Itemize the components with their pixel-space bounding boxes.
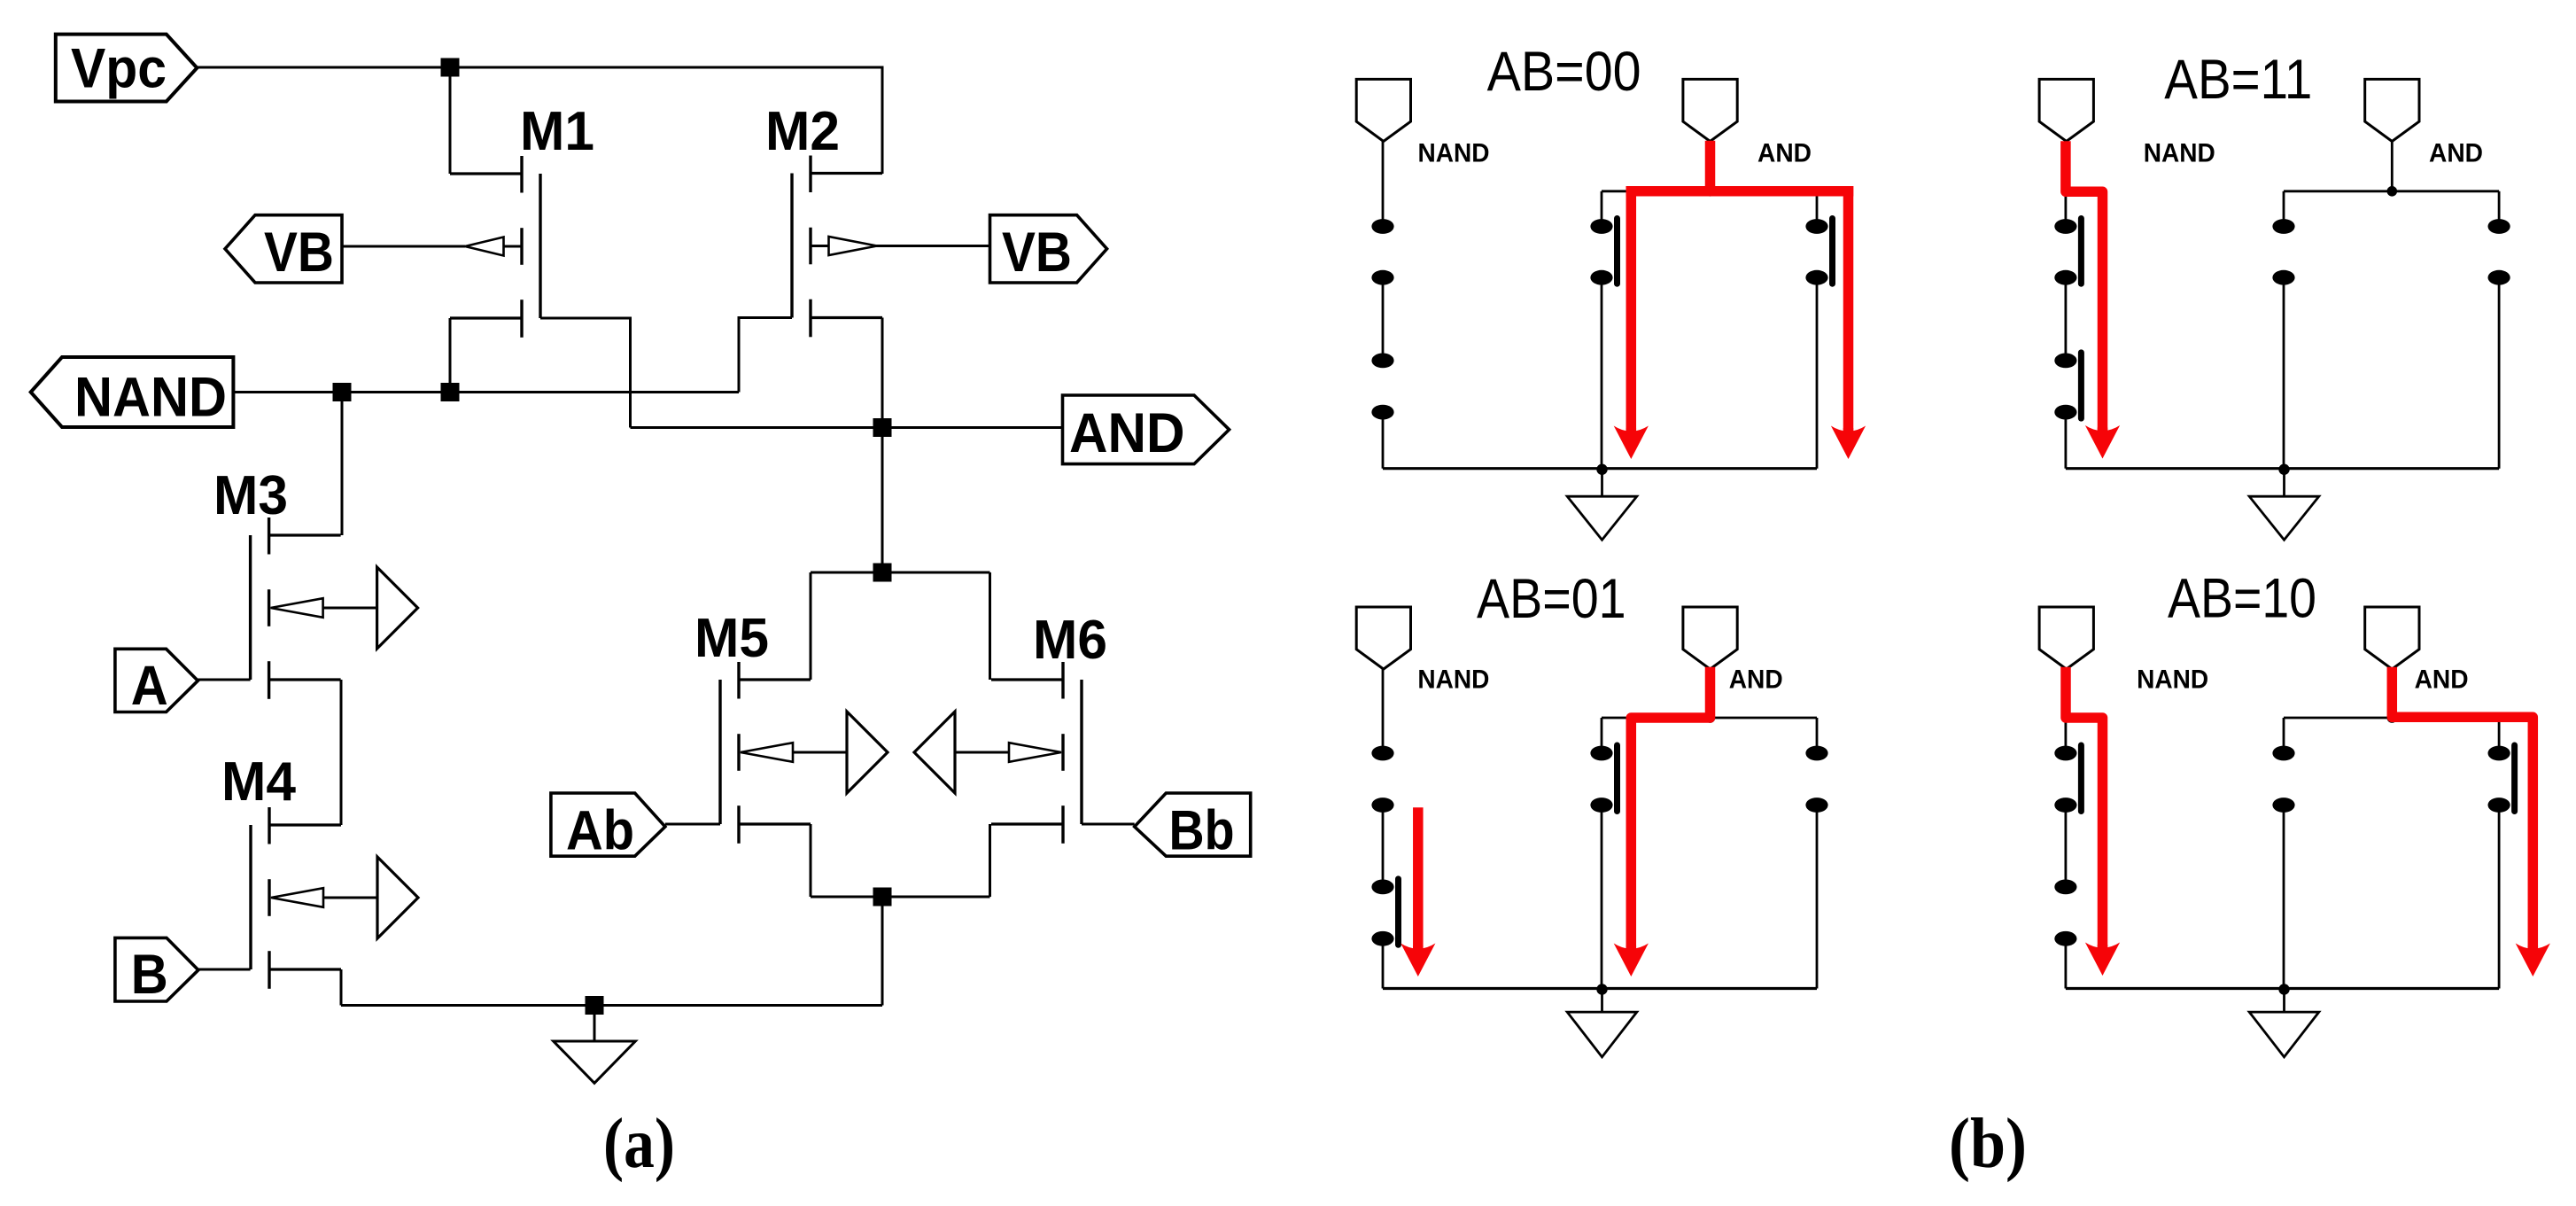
port flag VB right [990,215,1107,283]
svg-text:M1: M1 [520,101,594,162]
red current path AB=00 top [1631,186,1848,197]
red current path AB=10 AND path [2392,673,2533,951]
ground AB=11 [2278,464,2289,475]
svg-text:M4: M4 [221,751,296,813]
port flag AND [1063,395,1230,464]
wire Vpc rail to M2 drain [197,67,882,174]
wire AB=10 ground rail [2066,987,2499,990]
red arrow AB=01 NAND [1401,944,1435,977]
wire AB=11 AND left column [2283,191,2285,220]
junction AND rail [873,418,892,437]
switch contacts AB=10 NAND A [2054,746,2076,761]
transistor M3 [251,517,418,699]
wire AB=01 AND left column [1601,718,1603,746]
svg-text:NAND: NAND [1417,665,1489,695]
red arrow AB=10 AND [2516,944,2550,977]
ground symbol panel a [594,1006,596,1042]
switch contacts AB=10 AND Bb [2488,746,2510,761]
wire AB=00 AND left column [1601,191,1603,220]
port flag NAND [31,357,234,427]
wire M5 M6 source rail [811,896,990,899]
port flag Bb [1135,793,1251,856]
wire M2 gate to NAND rail [739,318,792,393]
wire AB=11 AND stem [2391,142,2394,191]
junction Vpc rail [441,58,460,77]
wire VB right to M2 bulk [876,245,990,247]
red arrow AB=10 NAND [2085,943,2120,976]
svg-text:NAND: NAND [74,367,227,429]
ground AB=10 [2278,984,2289,994]
wire AB=01 AND right column [1816,718,1819,746]
wire AB=00 NAND column [1382,142,1385,220]
svg-text:AND: AND [2415,665,2469,695]
wire M2 source to AND rail [881,318,884,428]
switch contacts AB=10 AND Ab [2272,746,2294,761]
svg-text:M3: M3 [213,465,288,526]
wire B input to M4 gate [198,969,251,971]
wire AB=11 AND top bar [2284,190,2499,192]
svg-text:B: B [131,944,168,1006]
wire AB=10 NAND column [2064,669,2067,747]
port flag Vpc [56,35,198,102]
wire AB=10 AND right column [2498,718,2501,746]
switch contacts AB=01 AND Bb [1805,746,1827,761]
port flag A [115,649,198,712]
red current path AB=01 AND path [1631,673,1710,951]
wire AB=00 ground rail [1383,467,1817,470]
svg-text:AB=01: AB=01 [1477,568,1626,630]
supply connector AB=10 AND supply [2365,607,2419,669]
red current path AB=00 stem [1705,146,1716,191]
svg-text:AND: AND [2429,139,2483,168]
wire branch to M6 drain [989,572,991,680]
switch contacts AB=00 NAND A [1371,219,1393,234]
wire AB=01 AND stem [1709,669,1711,719]
svg-text:NAND: NAND [2144,139,2215,168]
wire M6 source down [989,824,991,897]
wire M3 source to M4 drain [340,680,343,825]
supply connector AB=00 NAND supply [1356,79,1410,141]
svg-text:Vpc: Vpc [71,37,167,99]
transistor M6 [914,662,1082,844]
switch contacts AB=01 NAND A [1371,746,1393,761]
switch contacts AB=00 AND Ab [1590,219,1612,234]
wire M5 source down [810,824,812,897]
wire NAND node to M3 drain [341,393,344,536]
junction ground rail [586,996,604,1015]
red arrow AB=11 [2085,425,2120,459]
transistor M5 [720,662,888,844]
wire Vpc junction stub to M1 drain [449,67,452,174]
wire Bb input to M6 gate [1082,823,1135,826]
wire M1 source to NAND rail [449,318,452,393]
switch contacts AB=01 AND Ab [1590,746,1612,761]
ground AB=00 [1596,464,1607,475]
wire AB=10 AND stem [2391,669,2394,719]
svg-text:A: A [131,655,168,717]
wire AB=11 AND right column [2498,191,2501,220]
svg-text:AB=10: AB=10 [2168,567,2316,629]
junction NAND rail left [333,383,352,401]
wire M4 source to ground rail [340,969,343,1006]
junction NAND rail right [441,383,460,401]
red arrow AB=00 right [1831,426,1866,460]
wire M1 gate to AND rail [540,318,631,428]
red current path AB=01 NAND down [1413,813,1424,950]
wire AB=10 AND top bar [2284,717,2499,720]
port flag VB left [225,215,342,283]
wire AB=01 NAND column [1382,669,1385,747]
wire AB=11 NAND column [2064,142,2067,220]
wire branch to M5 drain [811,572,990,574]
switch contacts AB=01 NAND B [1371,880,1393,895]
svg-text:(b): (b) [1949,1105,2027,1183]
red current path AB=11 path [2066,146,2103,432]
svg-text:AND: AND [1757,139,1812,168]
svg-text:VB: VB [264,222,334,284]
wire AB=01 ground rail [1383,987,1817,990]
ground AB=01 [1596,984,1607,994]
red arrow AB=00 left [1614,426,1649,460]
port flag Ab [551,793,665,856]
wire AND node down to pair branch [881,428,884,573]
switch contacts AB=11 AND Bb [2488,219,2510,234]
transistor M2 [792,156,882,338]
svg-text:AND: AND [1069,402,1185,464]
supply connector AB=01 NAND supply [1356,607,1410,669]
svg-text:M5: M5 [694,608,769,669]
wire ground rail [341,1004,882,1007]
wire AB=01 AND top bar [1602,717,1817,720]
wire AB=10 AND left column [2283,718,2285,746]
supply connector AB=00 AND supply [1683,79,1737,141]
supply connector AB=10 NAND supply [2039,607,2093,669]
svg-text:M2: M2 [765,101,840,162]
red current path AB=10 NAND path [2066,673,2103,949]
junction source rail [873,888,892,906]
transistor M4 [251,807,418,989]
wire A input to M3 gate [198,679,250,681]
switch contacts AB=11 NAND A [2054,219,2076,234]
switch contacts AB=10 NAND B [2054,880,2076,895]
junction M5 M6 drain branch [873,564,892,582]
wire source rail to ground rail [881,897,884,1006]
svg-text:M6: M6 [1033,610,1107,671]
wire VB left to M1 bulk [342,245,465,248]
svg-text:VB: VB [1002,222,1072,284]
supply connector AB=11 AND supply [2365,79,2419,141]
wire AB=00 AND right column [1816,191,1819,220]
svg-text:AB=11: AB=11 [2164,49,2312,111]
wire AB=11 ground rail [2066,467,2499,470]
svg-text:Bb: Bb [1169,799,1235,861]
supply connector AB=11 NAND supply [2039,79,2093,141]
svg-text:AB=00: AB=00 [1487,41,1641,103]
svg-text:Ab: Ab [566,799,634,861]
wire AB=00 AND top bar [1602,190,1817,192]
red current path AB=00 left down [1626,191,1637,432]
switch contacts AB=11 AND Ab [2272,219,2294,234]
wire AB=00 AND stem [1709,142,1711,191]
wire NAND rail [233,391,739,393]
switch contacts AB=00 AND Bb [1805,219,1827,234]
switch contacts AB=11 NAND B [2054,354,2076,369]
port flag B [115,938,198,1001]
switch contacts AB=00 NAND B [1371,354,1393,369]
svg-text:(a): (a) [603,1105,675,1183]
red current path AB=00 right down [1843,191,1854,432]
supply connector AB=01 AND supply [1683,607,1737,669]
red arrow AB=01 AND [1614,944,1649,977]
wire Ab input to M5 gate [665,823,720,826]
svg-text:NAND: NAND [1418,139,1490,168]
svg-text:AND: AND [1729,665,1783,695]
transistor M1 [450,156,540,338]
wire AND rail [631,426,1063,429]
svg-text:NAND: NAND [2137,665,2208,695]
